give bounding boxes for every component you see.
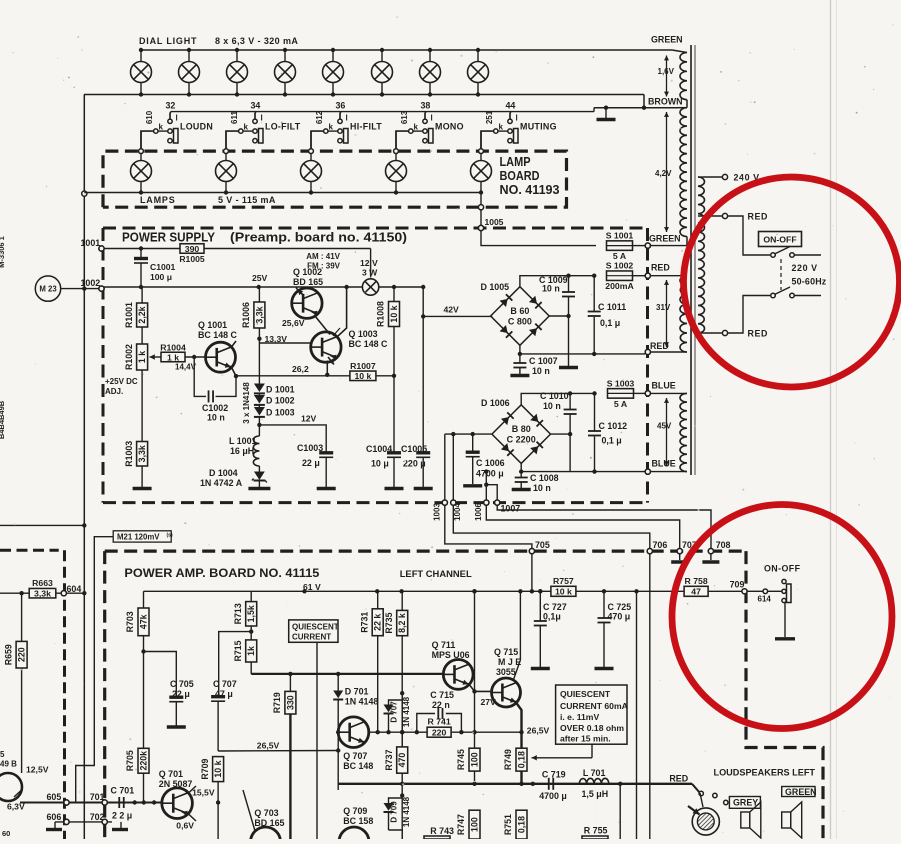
svg-text:POWER AMP. BOARD NO. 41115: POWER AMP. BOARD NO. 41115 bbox=[124, 567, 320, 580]
svg-text:RED: RED bbox=[748, 329, 769, 339]
svg-text:8 x 6,3 V - 320 mA: 8 x 6,3 V - 320 mA bbox=[215, 36, 298, 46]
svg-text:k: k bbox=[329, 123, 334, 132]
svg-text:BLUE: BLUE bbox=[652, 381, 676, 391]
svg-text:k: k bbox=[414, 123, 419, 132]
svg-text:R 743: R 743 bbox=[430, 826, 454, 836]
svg-text:100: 100 bbox=[470, 817, 480, 832]
svg-text:CURRENT 60mA: CURRENT 60mA bbox=[560, 701, 628, 711]
svg-text:RED: RED bbox=[650, 341, 669, 351]
svg-text:47k: 47k bbox=[139, 614, 149, 629]
svg-text:DIAL LIGHT: DIAL LIGHT bbox=[139, 36, 197, 46]
svg-text:100: 100 bbox=[470, 752, 480, 767]
svg-text:614: 614 bbox=[758, 595, 772, 604]
svg-text:1 k: 1 k bbox=[167, 352, 179, 362]
svg-text:5: 5 bbox=[0, 750, 5, 759]
svg-text:l: l bbox=[261, 114, 263, 123]
svg-text:5 V - 115 mA: 5 V - 115 mA bbox=[218, 195, 276, 205]
svg-text:613: 613 bbox=[400, 110, 409, 124]
svg-text:R1002: R1002 bbox=[124, 344, 134, 370]
svg-text:1,5 μH: 1,5 μH bbox=[582, 789, 609, 799]
svg-text:3,3k: 3,3k bbox=[254, 306, 264, 323]
svg-text:1N 4742 A: 1N 4742 A bbox=[200, 478, 243, 488]
svg-text:Q 1003: Q 1003 bbox=[349, 329, 378, 339]
svg-text:R1004: R1004 bbox=[160, 343, 186, 353]
svg-text:32: 32 bbox=[166, 100, 176, 110]
svg-text:470: 470 bbox=[397, 753, 407, 768]
svg-text:605: 605 bbox=[47, 792, 62, 802]
svg-text:612: 612 bbox=[315, 110, 324, 124]
svg-text:D 1001: D 1001 bbox=[266, 385, 295, 395]
svg-text:l: l bbox=[516, 114, 518, 123]
svg-text:C 727: C 727 bbox=[543, 602, 567, 612]
svg-text:3,3k: 3,3k bbox=[34, 589, 51, 599]
svg-text:k: k bbox=[159, 123, 164, 132]
svg-text:Q 703: Q 703 bbox=[254, 808, 278, 818]
svg-text:LOUDSPEAKERS LEFT: LOUDSPEAKERS LEFT bbox=[714, 768, 816, 778]
svg-text:C 725: C 725 bbox=[608, 602, 632, 612]
svg-text:22 k: 22 k bbox=[373, 614, 383, 631]
svg-text:BC 148: BC 148 bbox=[343, 761, 373, 771]
svg-text:B 80: B 80 bbox=[512, 424, 531, 434]
svg-text:D 1003: D 1003 bbox=[266, 408, 295, 418]
svg-text:0,1μ: 0,1μ bbox=[543, 612, 561, 622]
svg-text:R715: R715 bbox=[233, 640, 243, 661]
svg-text:705: 705 bbox=[535, 540, 550, 550]
svg-text:R713: R713 bbox=[233, 603, 243, 624]
svg-text:1N 4148: 1N 4148 bbox=[402, 796, 411, 827]
svg-text:L 701: L 701 bbox=[583, 768, 606, 778]
svg-text:470 μ: 470 μ bbox=[608, 612, 631, 622]
svg-text:390: 390 bbox=[185, 244, 200, 254]
svg-text:2 2 μ: 2 2 μ bbox=[112, 811, 132, 821]
svg-text:R659: R659 bbox=[3, 644, 13, 665]
svg-text:36: 36 bbox=[336, 100, 346, 110]
svg-text:C 705: C 705 bbox=[170, 679, 194, 689]
svg-text:1003: 1003 bbox=[433, 503, 442, 521]
svg-text:LEFT CHANNEL: LEFT CHANNEL bbox=[400, 569, 472, 580]
svg-text:45V: 45V bbox=[657, 422, 672, 431]
svg-text:R705: R705 bbox=[125, 750, 135, 771]
svg-text:C 1008: C 1008 bbox=[530, 473, 559, 483]
svg-text:LAMP: LAMP bbox=[500, 155, 531, 169]
svg-text:22 n: 22 n bbox=[432, 700, 450, 710]
svg-text:251: 251 bbox=[485, 110, 494, 124]
svg-text:MPS U06: MPS U06 bbox=[432, 650, 470, 660]
svg-text:1,5k: 1,5k bbox=[246, 605, 256, 622]
svg-text:ADJ.: ADJ. bbox=[105, 387, 123, 396]
svg-text:R751: R751 bbox=[503, 814, 513, 835]
svg-text:5 A: 5 A bbox=[614, 399, 628, 409]
svg-text:S 1001: S 1001 bbox=[606, 231, 634, 241]
svg-text:l: l bbox=[346, 114, 348, 123]
svg-text:10 n: 10 n bbox=[532, 366, 550, 376]
svg-text:BOARD: BOARD bbox=[500, 169, 540, 183]
svg-text:AM : 41V: AM : 41V bbox=[306, 252, 340, 261]
svg-text:L 1001: L 1001 bbox=[229, 436, 257, 446]
svg-text:0,18: 0,18 bbox=[517, 816, 527, 833]
svg-text:708: 708 bbox=[716, 540, 731, 550]
svg-text:LOUDN: LOUDN bbox=[180, 121, 213, 131]
svg-text:706: 706 bbox=[653, 540, 668, 550]
svg-text:1k: 1k bbox=[246, 646, 256, 656]
svg-text:OVER 0.18 ohm: OVER 0.18 ohm bbox=[560, 723, 624, 733]
svg-text:0,18: 0,18 bbox=[517, 751, 527, 768]
svg-text:4700 μ: 4700 μ bbox=[539, 791, 567, 801]
svg-text:S 1002: S 1002 bbox=[606, 261, 634, 271]
svg-text:220k: 220k bbox=[139, 751, 149, 771]
svg-text:HI-FILT: HI-FILT bbox=[350, 121, 382, 131]
svg-text:k: k bbox=[244, 123, 249, 132]
svg-text:C 1006: C 1006 bbox=[476, 458, 505, 468]
svg-text:LAMPS: LAMPS bbox=[140, 195, 176, 205]
svg-text:220: 220 bbox=[17, 647, 27, 662]
svg-text:R1006: R1006 bbox=[241, 302, 251, 328]
svg-text:47 μ: 47 μ bbox=[215, 689, 233, 699]
svg-text:1005: 1005 bbox=[485, 217, 504, 227]
svg-text:60: 60 bbox=[2, 829, 10, 838]
svg-text:Q 1002: Q 1002 bbox=[293, 267, 322, 277]
svg-text:R1001: R1001 bbox=[124, 302, 134, 328]
svg-text:100 μ: 100 μ bbox=[150, 272, 172, 282]
svg-text:C 1011: C 1011 bbox=[598, 302, 626, 312]
svg-text:R737: R737 bbox=[384, 749, 394, 770]
svg-text:LO-FILT: LO-FILT bbox=[265, 121, 301, 131]
svg-text:C1004: C1004 bbox=[366, 444, 392, 454]
svg-text:C 1010: C 1010 bbox=[540, 391, 569, 401]
svg-text:3 W: 3 W bbox=[362, 268, 378, 278]
svg-text:Q 701: Q 701 bbox=[159, 769, 183, 779]
svg-text:10 n: 10 n bbox=[533, 483, 551, 493]
svg-text:2,2k: 2,2k bbox=[137, 306, 147, 323]
svg-text:R703: R703 bbox=[125, 611, 135, 632]
svg-text:D 1006: D 1006 bbox=[481, 398, 510, 408]
svg-text:D 1004: D 1004 bbox=[209, 468, 238, 478]
svg-text:R1003: R1003 bbox=[124, 441, 134, 467]
svg-text:B4B4B49B: B4B4B49B bbox=[0, 400, 6, 439]
svg-text:1007: 1007 bbox=[501, 504, 521, 514]
svg-text:14,4V: 14,4V bbox=[175, 363, 197, 372]
svg-text:R747: R747 bbox=[456, 814, 466, 835]
svg-text:GREEN: GREEN bbox=[785, 787, 817, 797]
svg-text:C1002: C1002 bbox=[202, 403, 228, 413]
svg-text:RED: RED bbox=[651, 263, 670, 273]
svg-text:R719: R719 bbox=[272, 692, 282, 713]
svg-text:MONO: MONO bbox=[435, 121, 464, 131]
svg-text:BC 148 C: BC 148 C bbox=[349, 339, 389, 349]
svg-text:M21 120mV: M21 120mV bbox=[117, 533, 160, 542]
svg-text:1N 4148: 1N 4148 bbox=[402, 696, 411, 727]
svg-text:QUIESCENT: QUIESCENT bbox=[560, 689, 611, 699]
svg-text:D 1005: D 1005 bbox=[481, 282, 510, 292]
svg-text:200mA: 200mA bbox=[605, 281, 634, 291]
svg-text:Q 709: Q 709 bbox=[343, 806, 367, 816]
svg-text:10 n: 10 n bbox=[542, 284, 560, 294]
svg-text:R1008: R1008 bbox=[376, 301, 386, 327]
svg-text:ON-OFF: ON-OFF bbox=[763, 235, 796, 245]
svg-text:CURRENT: CURRENT bbox=[292, 633, 331, 642]
svg-text:QUIESCENT: QUIESCENT bbox=[292, 623, 339, 632]
svg-text:+25V DC: +25V DC bbox=[105, 377, 138, 386]
svg-text:R 755: R 755 bbox=[584, 826, 608, 836]
svg-text:R709: R709 bbox=[200, 758, 210, 779]
svg-text:15,5V: 15,5V bbox=[192, 787, 215, 797]
svg-text:16 μH: 16 μH bbox=[230, 446, 254, 456]
svg-text:611: 611 bbox=[230, 110, 239, 123]
svg-text:44: 44 bbox=[506, 100, 516, 110]
svg-text:(Preamp. board no. 41150): (Preamp. board no. 41150) bbox=[230, 230, 407, 245]
svg-text:50-60Hz: 50-60Hz bbox=[792, 277, 827, 287]
svg-text:12,5V: 12,5V bbox=[26, 765, 49, 775]
svg-text:27V: 27V bbox=[481, 697, 497, 707]
svg-text:BC 148 C: BC 148 C bbox=[198, 330, 238, 340]
svg-text:S 1003: S 1003 bbox=[607, 378, 635, 388]
svg-text:POWER SUPPLY: POWER SUPPLY bbox=[122, 230, 215, 245]
svg-text:49 B: 49 B bbox=[0, 760, 17, 769]
svg-text:604: 604 bbox=[67, 584, 82, 594]
svg-text:GREEN: GREEN bbox=[649, 234, 681, 244]
svg-text:R757: R757 bbox=[553, 576, 574, 586]
svg-text:5 A: 5 A bbox=[613, 251, 627, 261]
svg-text:Q 707: Q 707 bbox=[343, 751, 367, 761]
svg-text:D 1002: D 1002 bbox=[266, 396, 295, 406]
svg-text:R1007: R1007 bbox=[350, 361, 376, 371]
svg-text:10 k: 10 k bbox=[213, 760, 223, 777]
svg-text:1,6V: 1,6V bbox=[658, 67, 675, 76]
svg-text:MUTING: MUTING bbox=[520, 121, 557, 131]
svg-text:0,1 μ: 0,1 μ bbox=[602, 436, 622, 446]
svg-text:C 715: C 715 bbox=[430, 690, 454, 700]
svg-text:BLUE: BLUE bbox=[652, 459, 676, 469]
svg-text:26,5V: 26,5V bbox=[527, 726, 550, 736]
svg-text:22 μ: 22 μ bbox=[302, 458, 320, 468]
svg-text:31V: 31V bbox=[656, 303, 671, 312]
svg-text:709: 709 bbox=[730, 580, 745, 590]
svg-text:0,1 μ: 0,1 μ bbox=[600, 318, 620, 328]
svg-text:220: 220 bbox=[432, 728, 447, 738]
svg-text:606: 606 bbox=[47, 812, 62, 822]
svg-text:BC 158: BC 158 bbox=[343, 816, 373, 826]
svg-text:D 701: D 701 bbox=[345, 687, 369, 697]
svg-text:8,2 k: 8,2 k bbox=[397, 613, 407, 633]
svg-text:34: 34 bbox=[251, 100, 261, 110]
svg-text:BROWN: BROWN bbox=[648, 97, 683, 107]
svg-text:42V: 42V bbox=[444, 305, 460, 315]
svg-text:C 701: C 701 bbox=[111, 786, 135, 796]
svg-text:D 707: D 707 bbox=[390, 701, 399, 723]
svg-text:10 k: 10 k bbox=[389, 305, 399, 322]
svg-text:M 23: M 23 bbox=[39, 285, 57, 294]
svg-text:10 n: 10 n bbox=[207, 413, 225, 423]
svg-text:10 n: 10 n bbox=[543, 401, 561, 411]
svg-text:i. e. 11mV: i. e. 11mV bbox=[560, 712, 599, 722]
svg-text:1N 4148: 1N 4148 bbox=[345, 697, 379, 707]
svg-text:R731: R731 bbox=[359, 612, 369, 633]
svg-text:Q 1001: Q 1001 bbox=[198, 320, 227, 330]
svg-text:after 15 min.: after 15 min. bbox=[560, 734, 611, 744]
svg-text:GREEN: GREEN bbox=[651, 35, 683, 45]
svg-text:1002: 1002 bbox=[81, 278, 101, 288]
svg-text:GREY: GREY bbox=[733, 798, 758, 808]
svg-text:Q 711: Q 711 bbox=[432, 640, 456, 650]
svg-text:25,6V: 25,6V bbox=[282, 318, 305, 328]
svg-text:C 2200: C 2200 bbox=[507, 435, 536, 445]
svg-text:12 V: 12 V bbox=[360, 258, 378, 268]
svg-text:22 μ: 22 μ bbox=[172, 689, 190, 699]
svg-text:l: l bbox=[431, 114, 433, 123]
svg-text:3 x 1N4148: 3 x 1N4148 bbox=[242, 382, 251, 424]
svg-text:1 k: 1 k bbox=[137, 351, 147, 363]
svg-text:C1001: C1001 bbox=[150, 262, 176, 272]
svg-text:47: 47 bbox=[691, 587, 701, 597]
svg-text:330: 330 bbox=[285, 695, 295, 710]
svg-text:C 1012: C 1012 bbox=[599, 421, 628, 431]
svg-text:ON-OFF: ON-OFF bbox=[764, 564, 801, 574]
svg-text:R749: R749 bbox=[503, 749, 513, 770]
svg-text:l: l bbox=[176, 114, 178, 123]
svg-text:2N 5087: 2N 5087 bbox=[159, 779, 193, 789]
svg-text:C 800: C 800 bbox=[508, 317, 532, 327]
svg-text:R 758: R 758 bbox=[685, 576, 708, 586]
svg-text:RED: RED bbox=[669, 774, 688, 784]
svg-text:C 1007: C 1007 bbox=[529, 356, 558, 366]
svg-text:NO. 41193: NO. 41193 bbox=[500, 183, 560, 197]
svg-text:12V: 12V bbox=[301, 414, 317, 424]
svg-text:26,2: 26,2 bbox=[292, 364, 309, 374]
svg-text:10 k: 10 k bbox=[354, 371, 371, 381]
svg-text:26,5V: 26,5V bbox=[257, 740, 280, 750]
svg-text:220 μ: 220 μ bbox=[403, 459, 426, 469]
svg-text:1006: 1006 bbox=[474, 503, 483, 521]
svg-text:10 μ: 10 μ bbox=[371, 459, 389, 469]
svg-text:1001: 1001 bbox=[81, 238, 101, 248]
svg-text:610: 610 bbox=[145, 110, 154, 124]
svg-text:D 709: D 709 bbox=[390, 801, 399, 823]
svg-text:C1005: C1005 bbox=[401, 444, 427, 454]
svg-text:0,6V: 0,6V bbox=[176, 821, 194, 831]
svg-text:R663: R663 bbox=[32, 578, 53, 588]
svg-text:k: k bbox=[499, 123, 504, 132]
svg-text:R745: R745 bbox=[456, 749, 466, 770]
svg-text:R735: R735 bbox=[384, 612, 394, 633]
svg-text:C 707: C 707 bbox=[213, 679, 237, 689]
svg-text:RED: RED bbox=[748, 212, 769, 222]
svg-text:25V: 25V bbox=[252, 273, 268, 283]
svg-text:38: 38 bbox=[421, 100, 431, 110]
svg-text:3055: 3055 bbox=[496, 667, 516, 677]
svg-text:10 k: 10 k bbox=[555, 587, 572, 597]
svg-text:220 V: 220 V bbox=[792, 263, 818, 273]
svg-text:M-3306 1: M-3306 1 bbox=[0, 236, 6, 268]
svg-text:(s): (s) bbox=[167, 533, 173, 539]
svg-text:BD 165: BD 165 bbox=[293, 277, 323, 287]
svg-text:4700 μ: 4700 μ bbox=[476, 469, 504, 479]
svg-text:3,3k: 3,3k bbox=[137, 445, 147, 462]
svg-text:4,2V: 4,2V bbox=[655, 169, 672, 178]
svg-text:B 60: B 60 bbox=[510, 306, 529, 316]
svg-text:Q 715: Q 715 bbox=[494, 647, 518, 657]
svg-text:C1003: C1003 bbox=[297, 443, 323, 453]
